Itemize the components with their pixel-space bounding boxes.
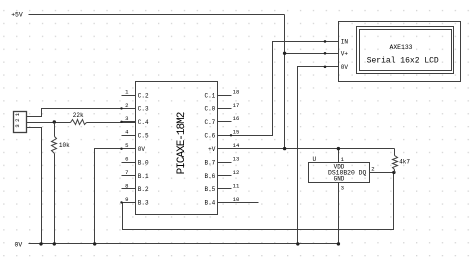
sensor pin2 stub DQ (370, 172, 394, 174)
svg-text:10: 10 (233, 196, 240, 203)
wire connector pin2 to 22k (27, 122, 71, 124)
LCD bezel inner (360, 30, 452, 71)
LCD pin connection dots (324, 40, 327, 43)
sensor pin1 stub VDD (338, 149, 340, 163)
svg-text:7: 7 (125, 169, 128, 176)
wire B.3 pin9 to DS18B20 DQ (122, 173, 394, 230)
svg-text:2: 2 (14, 119, 21, 122)
pin 11 B.5 stub (218, 188, 232, 190)
svg-text:0V: 0V (341, 64, 349, 71)
junction dot pin5/0V rail (93, 242, 96, 245)
svg-text:0V: 0V (15, 241, 23, 248)
pin 4 C.5 stub (122, 135, 136, 137)
pin 2 C.3 stub (122, 108, 136, 110)
svg-text:2: 2 (125, 102, 128, 109)
svg-text:B.4: B.4 (204, 200, 215, 207)
svg-text:U: U (313, 156, 317, 163)
resistor R3 4k7 (394, 149, 396, 156)
svg-text:B.0: B.0 (138, 159, 149, 166)
svg-text:3: 3 (125, 115, 128, 122)
pin 14 +V stub (218, 148, 232, 150)
svg-text:B.6: B.6 (204, 173, 215, 180)
wire +5V vertical feed (284, 15, 286, 149)
svg-text:4k7: 4k7 (399, 158, 410, 165)
svg-text:+5V: +5V (11, 12, 23, 19)
wire B.4 pin10 stub extension (232, 202, 259, 204)
pin 7 B.1 stub (122, 175, 136, 177)
pin 3 C.4 stub (122, 121, 136, 123)
svg-text:15: 15 (233, 129, 240, 136)
svg-text:V+: V+ (341, 51, 349, 58)
svg-text:22k: 22k (73, 112, 84, 119)
svg-text:10k: 10k (59, 142, 70, 149)
wire connector pin3 to 0V (27, 128, 42, 244)
svg-text:17: 17 (233, 102, 240, 109)
svg-text:C.2: C.2 (138, 92, 149, 99)
pin 13 B.7 stub (218, 162, 232, 164)
svg-text:12: 12 (233, 169, 240, 176)
resistor R2 10k (54, 123, 56, 137)
svg-text:0V: 0V (138, 146, 146, 153)
svg-text:C.4: C.4 (138, 119, 149, 126)
LCD bezel outer (357, 27, 454, 74)
svg-text:3: 3 (341, 185, 344, 192)
svg-text:C.7: C.7 (204, 119, 215, 126)
svg-text:GND: GND (334, 176, 345, 183)
svg-text:C.0: C.0 (204, 106, 215, 113)
junction dot GND/0V rail (337, 242, 340, 245)
pin 8 B.2 stub (122, 188, 136, 190)
junction dot 10k/0V (53, 242, 56, 245)
wire 0V pin5 to 0V rail (95, 149, 122, 244)
svg-text:B.5: B.5 (204, 186, 215, 193)
wire 0V rail (29, 243, 339, 245)
wire 22k to C.4 pin3 (87, 122, 136, 124)
svg-text:B.2: B.2 (138, 186, 149, 193)
svg-text:16: 16 (233, 115, 240, 122)
svg-text:2: 2 (371, 166, 374, 173)
connector J1 3-pin (14, 112, 27, 133)
svg-text:6: 6 (125, 156, 128, 163)
junction dot 22k/10k (53, 120, 56, 123)
wire 10k to 0V (54, 154, 56, 244)
svg-text:C.6: C.6 (204, 133, 215, 140)
junction dot pin3/0V (39, 242, 42, 245)
IC U1 PICAXE-18M2 body (136, 82, 218, 215)
pin 17 C.0 stub (218, 108, 232, 110)
LCD AXE133 outer box (339, 22, 461, 82)
pin 15 C.6 stub (218, 135, 232, 137)
wire +5V rail (29, 14, 285, 16)
resistor R1 22k (71, 120, 87, 125)
wire LCD V+ branch (285, 53, 339, 55)
svg-text:8: 8 (125, 182, 128, 189)
pin 12 B.6 stub (218, 175, 232, 177)
junction dot +5V/V+ (283, 52, 286, 55)
pin 6 B.0 stub (122, 162, 136, 164)
svg-text:Serial 16x2 LCD: Serial 16x2 LCD (367, 57, 439, 66)
svg-text:5: 5 (125, 142, 128, 149)
svg-text:B.1: B.1 (138, 173, 149, 180)
svg-text:B.7: B.7 (204, 159, 215, 166)
svg-text:PICAXE-18M2: PICAXE-18M2 (176, 112, 188, 174)
svg-text:B.3: B.3 (138, 200, 149, 207)
junction dot LCD0V/rail (296, 242, 299, 245)
junction dot +5V/+V (283, 147, 286, 150)
pin 1 C.2 stub (122, 95, 136, 97)
sensor pin3 stub GND to 0V (338, 183, 340, 244)
pin 5 0V stub (122, 148, 136, 150)
svg-text:IN: IN (341, 39, 349, 46)
sensor U DS18B20 body (309, 163, 370, 183)
svg-text:3: 3 (14, 124, 21, 127)
wire +V pin14 rail (232, 148, 395, 150)
svg-text:C.5: C.5 (138, 133, 149, 140)
pin 18 C.1 stub (218, 95, 232, 97)
pin 16 C.7 stub (218, 121, 232, 123)
svg-text:13: 13 (233, 156, 240, 163)
svg-text:C.3: C.3 (138, 106, 149, 113)
junction dot VDD/+V rail (337, 147, 340, 150)
svg-text:+V: +V (208, 146, 216, 153)
IC pin connection dots (230, 134, 232, 136)
pin 9 B.3 stub (122, 202, 136, 204)
svg-text:AXE133: AXE133 (389, 44, 412, 51)
wire LCD 0V to 0V rail (298, 67, 339, 244)
svg-text:11: 11 (233, 182, 240, 189)
svg-text:18: 18 (233, 88, 240, 95)
wire C.6 pin15 to LCD IN (232, 42, 339, 136)
junction dot DQ/4k7 (392, 171, 395, 174)
svg-text:C.1: C.1 (204, 92, 215, 99)
wire connector pin1 to C.3 (27, 109, 136, 117)
svg-text:9: 9 (125, 196, 128, 203)
pin 10 B.4 stub (218, 202, 232, 204)
